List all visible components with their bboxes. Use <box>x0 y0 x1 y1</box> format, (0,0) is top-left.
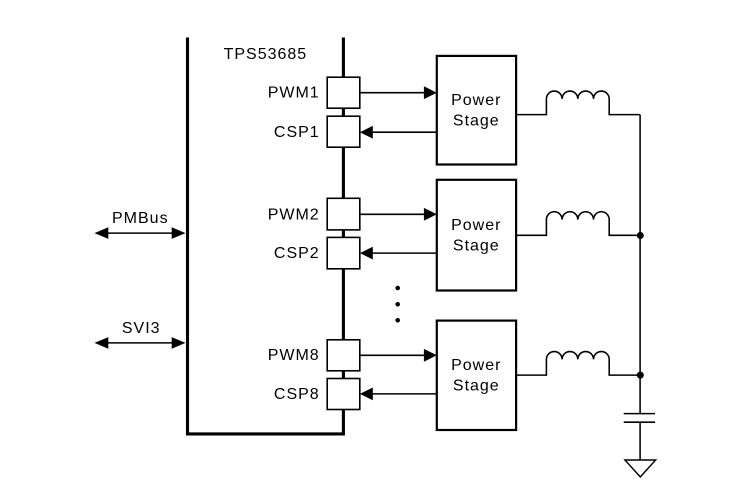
svg-text:CSP1: CSP1 <box>274 124 320 141</box>
svg-text:Stage: Stage <box>453 237 500 254</box>
svg-text:CSP8: CSP8 <box>274 386 320 403</box>
svg-text:PMBus: PMBus <box>112 210 169 227</box>
svg-text:CSP2: CSP2 <box>274 245 320 262</box>
svg-text:Stage: Stage <box>453 377 500 394</box>
svg-text:Power: Power <box>451 92 501 109</box>
svg-text:PWM2: PWM2 <box>268 206 320 223</box>
svg-text:Power: Power <box>451 357 501 374</box>
svg-text:PWM1: PWM1 <box>268 85 320 102</box>
svg-text:SVI3: SVI3 <box>122 320 161 337</box>
svg-text:TPS53685: TPS53685 <box>224 46 308 63</box>
svg-text:Stage: Stage <box>453 112 500 129</box>
svg-text:Power: Power <box>451 217 501 234</box>
svg-text:PWM8: PWM8 <box>268 347 320 364</box>
